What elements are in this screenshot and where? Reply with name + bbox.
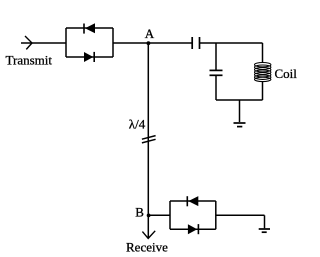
wire: tank right branch upper segment — [262, 43, 264, 63]
wire: tank right branch lower segment — [262, 81, 264, 100]
node A junction dot — [147, 41, 151, 45]
wire: bottom branch of transmit diode pair — [66, 56, 113, 58]
diode D3 (top, pointing left): cathode bar — [186, 196, 188, 206]
wire: tank bottom — [216, 99, 263, 101]
capacitor C1 (series): right plate — [199, 37, 201, 49]
break mark: lower slash on quarter-wave line — [142, 139, 156, 143]
svg-text:A: A — [145, 26, 155, 41]
ground symbol (tank): short bar — [237, 126, 242, 128]
capacitor C2 (shunt): top plate — [210, 69, 223, 71]
wire: ground drop on receive side — [264, 215, 266, 228]
capacitor C2 (shunt): bottom plate — [210, 74, 223, 76]
inductor L1 coil winding — [255, 62, 271, 81]
wire: from transmit diode pair to node A and capacitor C1 — [113, 42, 192, 44]
wire: tank left branch lower segment — [215, 75, 217, 100]
ground symbol (receive): long bar — [259, 228, 270, 230]
break mark: upper slash on quarter-wave line — [142, 136, 156, 140]
svg-text:Receive: Receive — [126, 239, 168, 254]
svg-text:Transmit: Transmit — [6, 53, 53, 68]
capacitor C1 (series): left plate — [191, 37, 193, 49]
wire: top branch of transmit diode pair — [66, 27, 113, 29]
diode pair D3/D4 branch box: left vertical edge — [169, 201, 171, 229]
diode pair D1/D2 branch box: right vertical edge — [112, 28, 114, 57]
wire: receive diode pair to ground corner — [216, 214, 265, 216]
wire: quarter-wave line from node A down to node B — [147, 43, 149, 216]
wire: receive output stub below node B — [147, 215, 149, 238]
diode pair D3/D4 branch box: right vertical edge — [215, 201, 217, 229]
wire: node B to receive diode pair — [148, 214, 170, 216]
diode D1 (top, pointing left): triangle — [85, 23, 95, 33]
diode D1 (top, pointing left): cathode bar — [83, 24, 85, 34]
wire: tank ground stub — [239, 100, 241, 122]
diode D3 (top, pointing left): triangle — [188, 196, 198, 206]
node B junction dot — [147, 214, 151, 218]
wire: top branch of receive diode pair — [170, 200, 216, 202]
wire: transmit input segment — [21, 42, 66, 44]
diode D2 (bottom, pointing right): triangle — [84, 52, 93, 62]
diode pair D1/D2 branch box: left vertical edge — [65, 28, 67, 57]
wire: from C1 to tank circuit top — [200, 42, 263, 44]
diode D4 (bottom, pointing right): cathode bar — [197, 224, 199, 234]
wire: tank left branch upper segment — [215, 43, 217, 70]
arrow: transmit direction chevron — [25, 36, 32, 49]
ground symbol (receive): short bar — [262, 231, 267, 233]
diode D2 (bottom, pointing right): cathode bar — [93, 52, 95, 62]
diode D4 (bottom, pointing right): triangle — [188, 224, 197, 234]
svg-text:λ/4: λ/4 — [129, 116, 146, 131]
ground symbol (tank): long bar — [234, 122, 246, 124]
arrow: receive direction chevron — [142, 231, 155, 239]
svg-text:B: B — [135, 204, 144, 219]
svg-text:Coil: Coil — [275, 66, 298, 81]
wire: bottom branch of receive diode pair — [170, 228, 216, 230]
